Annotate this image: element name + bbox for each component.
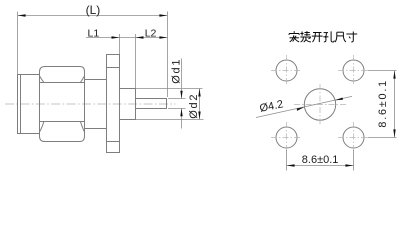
center hole circle (304, 89, 335, 120)
svg-text:8.6±0.1: 8.6±0.1 (377, 79, 389, 128)
dimension d1 arrows (180, 91, 182, 117)
title character an (289, 31, 299, 42)
dimension (L) line (18, 15, 167, 17)
coupling nut body (18, 75, 40, 134)
diameter 4.2 arrows (297, 97, 343, 110)
hole top-right crosshair (338, 55, 369, 86)
centerline axis (5, 103, 176, 105)
bottom spacing dimension extension lines (287, 150, 354, 171)
flange (107, 55, 120, 153)
dimension L1 arrow (112, 36, 120, 38)
insulator boss (120, 89, 136, 120)
dimension (L) arrows (18, 14, 167, 16)
svg-text:L1: L1 (88, 27, 100, 39)
title character kai (312, 33, 323, 43)
hole bottom-right circle (343, 127, 364, 148)
hole top-left circle (276, 60, 297, 81)
dimension d1 line (181, 59, 183, 129)
hex nut (40, 67, 85, 142)
title character zhuang (300, 31, 311, 42)
center pin (136, 99, 167, 109)
bottom spacing dimension line (287, 165, 354, 167)
dimension d2 arrows (198, 89, 200, 120)
hole bottom-right crosshair (338, 122, 369, 153)
svg-text:Ød1: Ød1 (170, 58, 182, 84)
dimension L1 L2 line (86, 37, 167, 39)
title character cun (346, 32, 357, 43)
right spacing dimension line (394, 71, 396, 138)
title character chi (335, 32, 346, 42)
svg-text:Ød2: Ød2 (188, 93, 200, 119)
dimension d2 extension lines (136, 89, 204, 120)
diameter 4.2 leader line (256, 96, 352, 117)
right spacing dimension extension lines (368, 71, 397, 138)
svg-text:L2: L2 (145, 27, 157, 39)
right spacing arrows (393, 71, 395, 137)
rear cylinder (85, 80, 107, 129)
svg-text:8.6±0.1: 8.6±0.1 (302, 154, 339, 166)
dimension d1 extension lines (168, 99, 186, 109)
dimension L2 arrows (136, 36, 168, 38)
hole bottom-left crosshair (271, 122, 302, 153)
dimension (L) extension lines (18, 12, 168, 98)
svg-text:(L): (L) (86, 3, 101, 17)
dimension d2 line (199, 89, 201, 120)
hole top-left crosshair (271, 55, 302, 86)
title character kong (323, 31, 334, 42)
hole bottom-left circle (276, 127, 297, 148)
center hole crosshair (294, 84, 347, 125)
dimension L1 L2 extension lines (120, 34, 136, 88)
bottom spacing arrows (287, 164, 353, 166)
hole top-right circle (343, 60, 364, 81)
